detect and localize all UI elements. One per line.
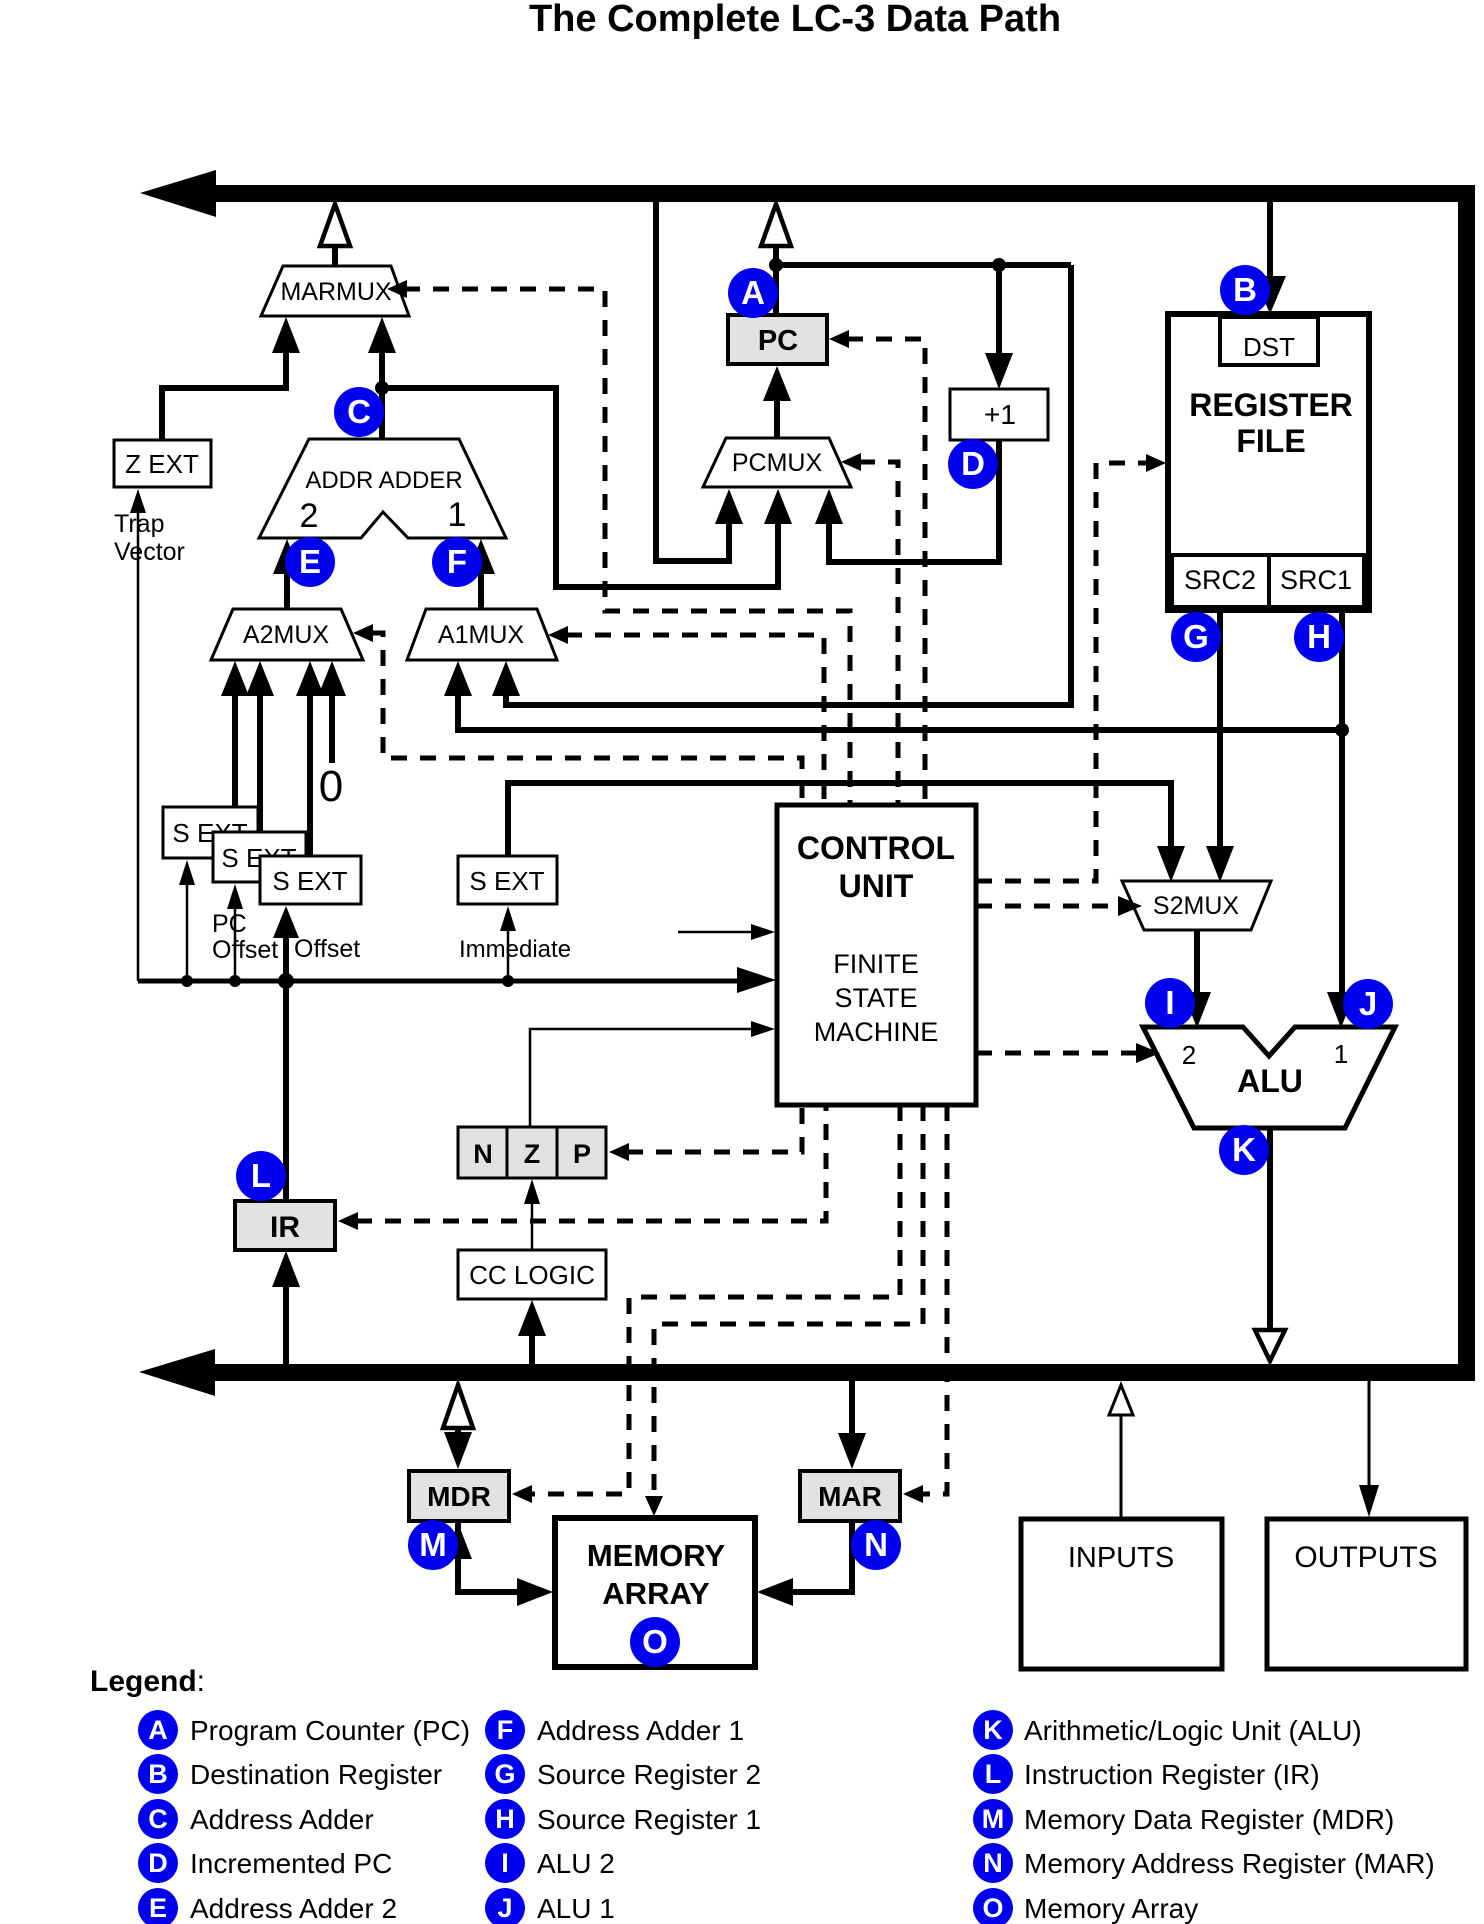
svg-text:Source Register 2: Source Register 2 xyxy=(537,1759,761,1790)
A1MUX xyxy=(407,609,557,660)
node incrementer junction xyxy=(992,258,1006,272)
svg-text:N: N xyxy=(864,1526,888,1563)
IR register xyxy=(235,1201,335,1250)
dashed wire control unit to PC load xyxy=(829,330,925,805)
node marker A program counter xyxy=(728,268,778,318)
svg-text:I: I xyxy=(1165,984,1174,1021)
svg-text:F: F xyxy=(497,1715,514,1745)
svg-text:H: H xyxy=(495,1804,515,1834)
svg-text:E: E xyxy=(149,1893,167,1923)
wire PC to A1MUX input 2 xyxy=(492,265,1071,705)
svg-text:L: L xyxy=(251,1157,271,1194)
wire trap vector into Z EXT xyxy=(130,489,146,981)
svg-text:PC: PC xyxy=(212,910,247,938)
svg-text:MDR: MDR xyxy=(427,1481,491,1512)
dashed wire control unit to A2MUX select xyxy=(353,624,802,805)
wire bus to DST xyxy=(1254,202,1286,314)
svg-text:Immediate: Immediate xyxy=(459,936,571,963)
legend item F xyxy=(485,1710,744,1750)
node marker N memory address register xyxy=(851,1520,901,1570)
legend item O xyxy=(973,1888,1198,1924)
legend item M xyxy=(973,1799,1394,1839)
svg-text:A1MUX: A1MUX xyxy=(438,621,524,649)
svg-text:M: M xyxy=(419,1526,447,1563)
dashed wire control unit to IR load xyxy=(338,1105,826,1230)
node marker J ALU 1 xyxy=(1343,979,1393,1029)
wire SRC1 to A1MUX input 1 xyxy=(444,661,1342,730)
wire IR field to S EXT box 1 xyxy=(179,860,195,981)
svg-text:Source Register 1: Source Register 1 xyxy=(537,1804,761,1835)
svg-text:P: P xyxy=(573,1139,591,1169)
label PC Offset xyxy=(212,910,278,964)
wire incrementer output to PCMUX input right xyxy=(815,440,999,562)
SRC1 port xyxy=(1269,555,1364,607)
dashed wire control unit to MAR load xyxy=(903,1105,947,1503)
svg-text:STATE: STATE xyxy=(834,983,917,1013)
incrementer +1 xyxy=(950,389,1048,440)
svg-text:DST: DST xyxy=(1243,332,1295,362)
svg-text:J: J xyxy=(1359,985,1377,1022)
legend item L xyxy=(973,1754,1320,1794)
S EXT box 1 xyxy=(163,807,258,858)
wire S2MUX output to ALU input 2 xyxy=(1183,930,1211,1028)
svg-text:Instruction Register (IR): Instruction Register (IR) xyxy=(1024,1759,1320,1790)
Z EXT xyxy=(114,440,211,487)
legend item H xyxy=(485,1799,761,1839)
node marker M memory data register xyxy=(408,1520,458,1570)
legend item D xyxy=(138,1843,392,1883)
svg-text:UNIT: UNIT xyxy=(839,868,914,904)
wire bus to MDR double arrow xyxy=(443,1385,473,1469)
wire bus to IR xyxy=(272,1251,300,1364)
svg-text:MARMUX: MARMUX xyxy=(280,278,391,306)
svg-text:D: D xyxy=(148,1848,168,1878)
svg-text:A: A xyxy=(741,274,765,311)
REGISTER FILE xyxy=(1168,314,1369,610)
wire ALU output to bus xyxy=(1255,1128,1285,1361)
node marker I ALU 2 xyxy=(1145,978,1195,1028)
DST port xyxy=(1220,317,1318,365)
wire NZP to control unit xyxy=(530,1021,775,1127)
svg-text:Z EXT: Z EXT xyxy=(125,449,199,479)
svg-text:Z: Z xyxy=(524,1139,541,1169)
svg-text:Incremented PC: Incremented PC xyxy=(190,1848,392,1879)
svg-text:CC LOGIC: CC LOGIC xyxy=(469,1260,595,1290)
svg-text:F: F xyxy=(447,543,467,580)
svg-text:B: B xyxy=(148,1759,168,1789)
wire ADDR ADDER output to PCMUX input middle xyxy=(382,388,792,587)
svg-text:Address Adder: Address Adder xyxy=(190,1804,374,1835)
svg-text:K: K xyxy=(1232,1131,1256,1168)
node marker F address adder 1 xyxy=(432,537,482,587)
svg-text:SRC2: SRC2 xyxy=(1184,565,1256,595)
svg-text:FINITE: FINITE xyxy=(833,949,919,979)
dashed wire control unit to S2MUX select xyxy=(976,896,1142,916)
dashed wire control unit to PCMUX select xyxy=(841,453,898,805)
svg-text:S2MUX: S2MUX xyxy=(1153,892,1239,920)
wire CC LOGIC to NZP xyxy=(524,1179,540,1250)
svg-text:SRC1: SRC1 xyxy=(1280,565,1352,595)
legend item I xyxy=(485,1843,615,1883)
svg-text:G: G xyxy=(1183,618,1209,655)
wire S EXT offset6 to A2MUX input 3 xyxy=(296,661,324,856)
svg-text:Program Counter (PC): Program Counter (PC) xyxy=(190,1715,470,1746)
legend item C xyxy=(138,1799,374,1839)
Trap Vector label xyxy=(114,510,185,566)
svg-text:ALU 1: ALU 1 xyxy=(537,1893,615,1924)
svg-text:IR: IR xyxy=(270,1211,300,1244)
svg-text:CONTROL: CONTROL xyxy=(797,830,955,866)
node marker C address adder xyxy=(334,387,384,437)
wire IR output to control unit xyxy=(138,967,776,993)
wire clock into control unit xyxy=(678,924,775,940)
svg-text:The Complete LC-3 Data Path: The Complete LC-3 Data Path xyxy=(529,0,1061,40)
legend item K xyxy=(973,1710,1362,1750)
node junction IR to S EXT 2 xyxy=(229,975,241,987)
svg-text:O: O xyxy=(642,1623,668,1660)
svg-text:C: C xyxy=(148,1804,168,1834)
bus bottom left arrowhead xyxy=(139,1349,215,1396)
svg-text:INPUTS: INPUTS xyxy=(1068,1542,1174,1574)
svg-text:ALU: ALU xyxy=(1237,1063,1303,1099)
svg-text:1: 1 xyxy=(448,496,467,534)
S EXT box 3 xyxy=(260,856,361,904)
svg-text:Address Adder 1: Address Adder 1 xyxy=(537,1715,744,1746)
legend item G xyxy=(485,1754,761,1794)
svg-text:Offset: Offset xyxy=(294,935,360,963)
bus right segment xyxy=(1458,185,1475,1381)
svg-text:H: H xyxy=(1307,618,1331,655)
svg-text:S EXT: S EXT xyxy=(469,866,544,896)
svg-text:Address Adder 2: Address Adder 2 xyxy=(190,1893,397,1924)
PCMUX xyxy=(703,438,851,487)
CC LOGIC xyxy=(458,1250,606,1299)
bus top left arrowhead xyxy=(140,170,216,217)
node marker L instruction register xyxy=(236,1151,286,1201)
svg-text:PC: PC xyxy=(758,325,798,357)
wire MAR to memory array xyxy=(757,1521,852,1606)
svg-text:OUTPUTS: OUTPUTS xyxy=(1294,1541,1437,1574)
wire ADDR ADDER output to MARMUX input right xyxy=(368,317,396,439)
wire PC to incrementer xyxy=(985,265,1013,389)
svg-text:G: G xyxy=(494,1759,515,1789)
dashed wire control unit to register file load xyxy=(976,454,1166,881)
node marker E address adder 2 xyxy=(285,537,335,587)
ADDR ADDER xyxy=(259,439,506,538)
svg-text:Legend:: Legend: xyxy=(90,1665,205,1698)
svg-text:K: K xyxy=(983,1715,1003,1745)
N flag xyxy=(458,1127,507,1178)
wire IR field to S EXT immediate xyxy=(500,906,516,981)
svg-text:E: E xyxy=(299,543,321,580)
svg-text:MAR: MAR xyxy=(818,1481,882,1512)
svg-text:REGISTER: REGISTER xyxy=(1189,387,1353,423)
wire INPUTS to bus xyxy=(1109,1385,1133,1519)
legend item B xyxy=(138,1754,442,1794)
bus bottom segment xyxy=(205,1364,1475,1381)
node marker D incremented PC xyxy=(948,439,998,489)
wire Z EXT output to MARMUX input left xyxy=(162,317,300,440)
svg-text:+1: +1 xyxy=(984,399,1016,430)
Z flag xyxy=(507,1127,557,1178)
wire constant 0 to A2MUX input 4 xyxy=(318,661,346,763)
svg-text:D: D xyxy=(961,445,985,482)
S2MUX xyxy=(1122,881,1271,930)
node junction IR to S EXT immediate xyxy=(502,975,514,987)
svg-text:Destination Register: Destination Register xyxy=(190,1759,442,1790)
svg-text:1: 1 xyxy=(1334,1039,1348,1069)
wire IR field to S EXT box 2 xyxy=(227,884,243,981)
svg-text:M: M xyxy=(982,1804,1005,1834)
wire bus to PCMUX input left xyxy=(656,202,743,561)
wire IR top riser xyxy=(283,981,289,1201)
wire bus to OUTPUTS xyxy=(1359,1381,1379,1517)
wire S EXT immediate to S2MUX xyxy=(508,783,1185,882)
wire SRC2 output to S2MUX xyxy=(1206,610,1234,882)
ALU xyxy=(1143,1027,1395,1128)
MDR register xyxy=(409,1471,509,1521)
svg-text:2: 2 xyxy=(1182,1040,1196,1070)
node PC output junction xyxy=(769,258,783,272)
svg-text:Memory Array: Memory Array xyxy=(1024,1893,1198,1924)
svg-text:L: L xyxy=(985,1759,1002,1789)
P flag xyxy=(557,1127,606,1178)
svg-text:ARRAY: ARRAY xyxy=(602,1576,710,1611)
wire MDR to memory array xyxy=(444,1521,553,1606)
wire MARMUX output to bus xyxy=(320,204,350,268)
dashed wire control unit to MARMUX select xyxy=(387,280,850,805)
svg-text:B: B xyxy=(1233,271,1257,308)
svg-text:ALU 2: ALU 2 xyxy=(537,1848,615,1879)
svg-text:O: O xyxy=(982,1893,1003,1923)
node marker G source register 2 xyxy=(1171,612,1221,662)
legend item A xyxy=(138,1710,470,1750)
node marker B destination register xyxy=(1220,265,1270,315)
wire S EXT pcoffset9 to A2MUX input 1 xyxy=(221,661,249,807)
svg-text:PCMUX: PCMUX xyxy=(732,449,823,477)
node marker O memory array xyxy=(630,1617,680,1667)
svg-text:Offset: Offset xyxy=(212,936,278,964)
wire PCMUX output to PC xyxy=(763,366,791,438)
A2MUX xyxy=(211,609,363,660)
node ADDR ADDER output junction xyxy=(375,381,389,395)
PC register xyxy=(728,315,827,364)
svg-text:I: I xyxy=(501,1848,509,1878)
svg-text:A2MUX: A2MUX xyxy=(243,621,329,649)
svg-text:Memory Data Register (MDR): Memory Data Register (MDR) xyxy=(1024,1804,1394,1835)
svg-text:N: N xyxy=(983,1848,1003,1878)
svg-text:0: 0 xyxy=(319,762,343,811)
wire PC output to bus xyxy=(761,204,791,315)
svg-text:C: C xyxy=(347,393,371,430)
bus top segment xyxy=(205,185,1475,202)
svg-text:FILE: FILE xyxy=(1236,423,1305,459)
node SRC1 junction xyxy=(1335,723,1349,737)
svg-text:Memory Address Register (MAR): Memory Address Register (MAR) xyxy=(1024,1848,1435,1879)
wire SRC1 output to ALU input 1 xyxy=(1327,610,1355,1028)
svg-text:S EXT: S EXT xyxy=(272,866,347,896)
legend item J xyxy=(485,1888,615,1924)
svg-text:J: J xyxy=(497,1893,512,1923)
wire bus to CC LOGIC xyxy=(518,1300,546,1364)
svg-text:Vector: Vector xyxy=(114,538,185,566)
svg-text:MACHINE: MACHINE xyxy=(814,1017,939,1047)
MEMORY ARRAY xyxy=(555,1518,755,1667)
wire S EXT pcoffset11 to A2MUX input 2 xyxy=(246,661,274,832)
svg-text:MEMORY: MEMORY xyxy=(587,1538,726,1573)
INPUTS xyxy=(1021,1519,1222,1669)
svg-text:Arithmetic/Logic Unit (ALU): Arithmetic/Logic Unit (ALU) xyxy=(1024,1715,1362,1746)
SRC2 port xyxy=(1172,555,1269,607)
CONTROL UNIT xyxy=(777,805,976,1105)
dashed wire control unit to ALU control xyxy=(976,1043,1160,1063)
wire PC output horizontal xyxy=(776,262,1071,268)
svg-text:N: N xyxy=(473,1139,493,1169)
wire A2MUX output to ADDR ADDER input 2 xyxy=(273,539,301,609)
wire IR field to S EXT box 3 xyxy=(273,906,299,981)
dashed wire control unit to A1MUX select xyxy=(548,626,824,805)
node marker H source register 1 xyxy=(1294,612,1344,662)
node junction IR riser xyxy=(278,973,294,989)
svg-text:ADDR ADDER: ADDR ADDER xyxy=(305,467,462,494)
OUTPUTS xyxy=(1267,1519,1466,1669)
MARMUX xyxy=(261,266,409,316)
S EXT box 2 xyxy=(213,832,306,882)
node marker K ALU output xyxy=(1219,1125,1269,1175)
svg-text:A: A xyxy=(148,1715,168,1745)
MAR register xyxy=(800,1471,900,1521)
wire bus to MAR xyxy=(838,1381,866,1469)
wire A1MUX output to ADDR ADDER input 1 xyxy=(467,539,495,609)
legend item N xyxy=(973,1843,1435,1883)
dashed wire control unit to NZP load xyxy=(609,1105,802,1161)
dashed wire control unit to MDR load xyxy=(512,1105,900,1503)
S EXT box immediate xyxy=(458,856,557,904)
node junction IR to S EXT 1 xyxy=(181,975,193,987)
legend item E xyxy=(138,1888,397,1924)
svg-text:2: 2 xyxy=(300,497,319,535)
dashed wire control unit to memory enable xyxy=(645,1105,923,1516)
